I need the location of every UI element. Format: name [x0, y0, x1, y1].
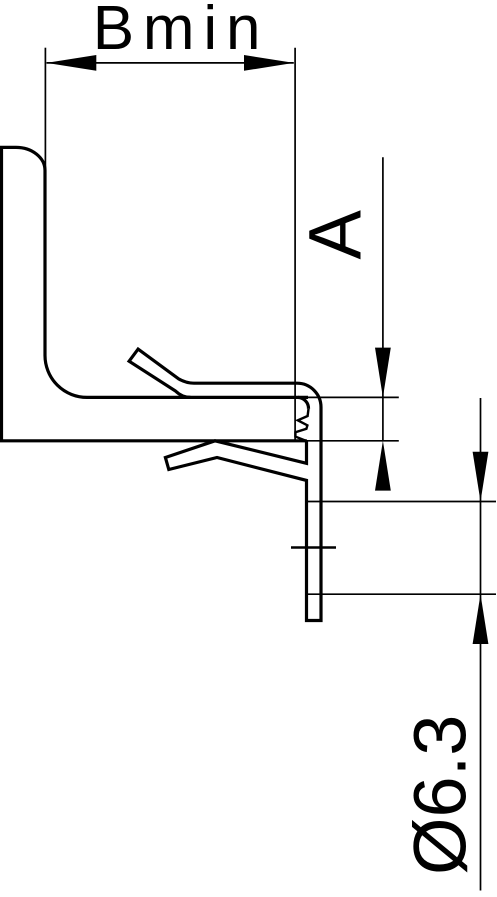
dimension A: top extension line	[308, 396, 399, 398]
dimension Ø6.3: bottom extension line	[307, 593, 497, 595]
clip inner bend radius	[298, 397, 309, 408]
stud center mark (crossbar)	[291, 546, 336, 549]
dimension A: bottom extension line	[307, 440, 399, 442]
dimension Bmin: left extension line	[44, 48, 46, 169]
dimension Bmin: left arrowhead	[47, 55, 97, 71]
dimension A: dimension line upper part	[382, 157, 384, 397]
svg-text:Bmin: Bmin	[93, 0, 269, 63]
dimension Bmin: right arrowhead	[244, 55, 294, 71]
dimension Bmin: right extension line	[294, 48, 296, 441]
dimension Ø6.3: top extension line	[307, 501, 497, 503]
spring clip outline	[129, 349, 321, 620]
svg-text:Ø6.3: Ø6.3	[398, 715, 481, 875]
dimension A: down arrowhead	[375, 348, 391, 398]
dimension Ø6.3: down arrowhead	[473, 452, 489, 502]
panel profile outline	[2, 147, 309, 440]
dimension Bmin: dimension line	[47, 62, 294, 64]
dimension A: segment between extension lines	[382, 397, 384, 440]
panel break line (wavy)	[295, 409, 308, 441]
svg-text:A: A	[294, 209, 377, 259]
dimension A: up arrowhead	[375, 441, 391, 491]
dimension Ø6.3: dimension line	[480, 398, 482, 891]
dimension Ø6.3: up arrowhead	[473, 594, 489, 644]
